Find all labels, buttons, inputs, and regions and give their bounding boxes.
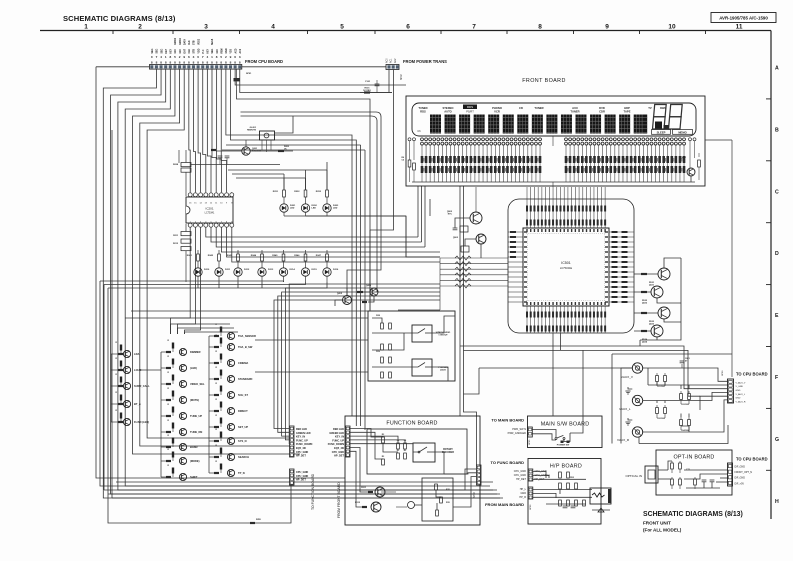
svg-text:7: 7 xyxy=(472,24,476,31)
svg-text:IC501: IC501 xyxy=(561,261,571,265)
svg-text:GRID2: GRID2 xyxy=(175,37,177,45)
H/P BOARD outline xyxy=(528,459,601,525)
svg-text:TAPE: TAPE xyxy=(624,109,631,113)
svg-text:R245: R245 xyxy=(272,254,278,257)
svg-text:Q532: Q532 xyxy=(642,303,648,305)
svg-text:11: 11 xyxy=(736,24,743,31)
svg-text:STB: STB xyxy=(194,49,196,54)
svg-text:8: 8 xyxy=(169,55,171,59)
svg-text:KEY_IN: KEY_IN xyxy=(335,436,344,439)
svg-text:FUNC_UP: FUNC_UP xyxy=(332,439,344,442)
svg-text:V_AUX_V: V_AUX_V xyxy=(736,381,746,384)
svg-text:8: 8 xyxy=(211,61,213,65)
display 7-segment digits 88 xyxy=(653,105,683,130)
svg-text:R3: R3 xyxy=(404,450,406,452)
svg-text:STEREO: STEREO xyxy=(442,106,453,110)
model number box AVR-1905/785 A/C-1590 xyxy=(711,13,776,23)
svg-text:8: 8 xyxy=(183,61,185,65)
svg-text:Q533: Q533 xyxy=(649,324,655,326)
svg-text:REMOTE: REMOTE xyxy=(247,130,257,132)
left multi-wire bus into IC501 xyxy=(398,256,508,310)
svg-text:0: 0 xyxy=(151,55,153,59)
svg-text:DIF_GND: DIF_GND xyxy=(735,477,746,480)
display pin row and resistor arrays xyxy=(421,138,686,182)
svg-text:R244: R244 xyxy=(251,254,257,257)
svg-text:LRA: LRA xyxy=(134,352,139,356)
svg-text:TUNE_DN: TUNE_DN xyxy=(190,430,202,434)
function board inner circuit box xyxy=(367,429,467,474)
transistor array column 3 Q231-Q240 xyxy=(209,324,256,477)
svg-text:CPU_GND: CPU_GND xyxy=(514,470,526,473)
labels PWR_SW xyxy=(508,428,527,435)
svg-text:8: 8 xyxy=(197,61,199,65)
svg-text:B: B xyxy=(775,127,779,133)
svg-text:TUNER: TUNER xyxy=(534,106,543,110)
middle maze wires xyxy=(125,145,455,430)
svg-text:ACD: ACD xyxy=(234,48,237,53)
labels CN202 signals xyxy=(296,428,312,458)
svg-text:CD: CD xyxy=(519,106,523,110)
svg-text:D216: D216 xyxy=(333,269,339,271)
transistor Q206 xyxy=(357,285,378,303)
svg-text:SP05: SP05 xyxy=(529,439,531,445)
svg-text:2: 2 xyxy=(225,55,227,59)
wire bus from CN201 to left edge xyxy=(96,67,500,498)
svg-text:1K REQ: 1K REQ xyxy=(363,90,371,92)
svg-text:H: H xyxy=(775,499,779,505)
power switch S401 xyxy=(532,430,570,447)
svg-text:8: 8 xyxy=(179,61,181,65)
svg-text:8: 8 xyxy=(165,61,167,65)
svg-text:D211: D211 xyxy=(225,269,231,271)
svg-text:P-C: P-C xyxy=(203,49,205,53)
IC501 right pins with resistor arrays xyxy=(605,231,634,303)
svg-text:8: 8 xyxy=(169,61,171,65)
svg-text:R232: R232 xyxy=(294,191,300,193)
svg-text:SEG: SEG xyxy=(212,48,214,53)
svg-text:MAIN S/W BOARD: MAIN S/W BOARD xyxy=(541,422,590,428)
svg-text:5: 5 xyxy=(340,24,344,31)
transistor array column 2 Q221-Q229 xyxy=(161,340,205,481)
svg-text:PWR_SW N: PWR_SW N xyxy=(512,428,526,431)
resistor R201 near CN201 xyxy=(234,69,253,90)
grid row letters A-H xyxy=(775,66,779,505)
svg-text:8: 8 xyxy=(538,24,542,31)
svg-text:SCHEMATIC DIAGRAMS (8/13): SCHEMATIC DIAGRAMS (8/13) xyxy=(643,511,743,518)
wire loop around front board left xyxy=(241,112,382,296)
svg-text:R208: R208 xyxy=(173,164,179,166)
transistor Q502 above IC501 xyxy=(447,187,482,232)
svg-text:(LED): (LED) xyxy=(190,366,197,370)
IC501 shield outline rounded xyxy=(508,199,634,333)
jack J601 VAUX_V xyxy=(621,363,728,444)
svg-text:5: 5 xyxy=(220,55,222,59)
svg-text:RED LED: RED LED xyxy=(333,428,344,431)
wire CN201 pins to right busses xyxy=(226,67,477,465)
svg-text:VAUX_R: VAUX_R xyxy=(617,438,630,442)
svg-text:TOA_B_SW: TOA_B_SW xyxy=(238,345,253,349)
svg-text:AUTO: AUTO xyxy=(444,109,452,113)
right border line xyxy=(770,31,772,520)
svg-text:DIRECT: DIRECT xyxy=(238,409,248,413)
svg-text:RDS: RDS xyxy=(420,109,426,113)
connector CN501 hp board upper xyxy=(528,469,547,481)
svg-text:R312: R312 xyxy=(355,502,361,504)
wires CN202 up to middle bus xyxy=(274,284,440,444)
LEDs D204-D210 row 2 xyxy=(187,250,339,282)
wires from power trans connector xyxy=(237,70,394,312)
svg-text:PWR_GND/LED: PWR_GND/LED xyxy=(508,432,527,435)
svg-text:GREEN LED: GREEN LED xyxy=(296,432,311,435)
svg-text:FROM FRONT BOARD: FROM FRONT BOARD xyxy=(337,482,341,518)
svg-text:VIDEO/AUDIO: VIDEO/AUDIO xyxy=(436,331,451,334)
connector CN502 hp board lower xyxy=(528,487,533,510)
svg-text:CPU_GND: CPU_GND xyxy=(296,471,308,474)
svg-text:DVD: DVD xyxy=(599,106,605,110)
wires VAUX grounds xyxy=(648,368,728,432)
svg-text:V_AUX_R: V_AUX_R xyxy=(736,401,746,404)
svg-text:GND: GND xyxy=(736,390,741,392)
svg-text:CPU_GND: CPU_GND xyxy=(296,451,308,454)
connector CN203 xyxy=(290,469,309,485)
svg-text:H/P BOARD: H/P BOARD xyxy=(550,464,582,470)
svg-text:CPU_GND: CPU_GND xyxy=(514,474,526,477)
wire display to IC501 xyxy=(552,136,554,187)
svg-text:CPU_GND: CPU_GND xyxy=(296,475,308,478)
svg-text:C63 R63: C63 R63 xyxy=(681,404,690,406)
svg-text:C61 R61: C61 R61 xyxy=(657,386,666,388)
transistor Q301 xyxy=(361,487,385,497)
transistor Q503 xyxy=(453,234,486,258)
resistor network R208 above IC201 xyxy=(173,150,280,196)
svg-text:2: 2 xyxy=(138,24,142,31)
svg-text:GRI: GRI xyxy=(180,49,182,53)
svg-text:R246: R246 xyxy=(294,254,300,257)
wires function board to CN302 xyxy=(444,469,477,507)
svg-text:V_GND: V_GND xyxy=(736,386,744,388)
svg-text:KTC: KTC xyxy=(448,214,453,216)
svg-text:SEG8: SEG8 xyxy=(212,38,214,45)
svg-text:VDD2: VDD2 xyxy=(198,38,200,45)
svg-text:R233: R233 xyxy=(316,191,322,193)
svg-text:DIMMER: DIMMER xyxy=(190,350,201,354)
svg-text:GRI: GRI xyxy=(217,49,219,53)
svg-text:SEARCH: SEARCH xyxy=(238,455,249,459)
svg-text:3: 3 xyxy=(239,55,241,59)
svg-text:SP04: SP04 xyxy=(473,491,476,498)
MAIN S/W BOARD outline xyxy=(528,416,603,448)
connector CN201 strip xyxy=(150,65,242,70)
sub box power sw on function board xyxy=(414,478,453,521)
capacitors opt-in board xyxy=(668,461,728,489)
svg-text:(For ALL MODEL): (For ALL MODEL) xyxy=(643,528,682,533)
svg-text:(MUTE): (MUTE) xyxy=(190,398,199,402)
svg-text:DAT: DAT xyxy=(183,48,186,53)
svg-text:F: F xyxy=(775,375,778,381)
svg-text:(MODE): (MODE) xyxy=(190,459,200,463)
svg-text:C: C xyxy=(775,189,779,195)
svg-text:DIF_GND: DIF_GND xyxy=(735,466,746,469)
svg-text:10: 10 xyxy=(668,24,676,31)
svg-text:5: 5 xyxy=(174,55,176,59)
svg-text:Q534: Q534 xyxy=(642,341,648,344)
display dot matrix segments xyxy=(430,115,647,134)
svg-text:TO CPU BOARD: TO CPU BOARD xyxy=(736,372,768,377)
svg-text:SURR_CALL: SURR_CALL xyxy=(134,384,150,388)
connector CN601 TO CPU BOARD xyxy=(722,370,768,404)
svg-text:9: 9 xyxy=(605,24,609,31)
svg-text:5CH_ST: 5CH_ST xyxy=(238,393,248,397)
svg-text:8: 8 xyxy=(151,61,153,65)
svg-text:HP_DET: HP_DET xyxy=(296,479,306,482)
display module FL601 outline xyxy=(412,103,696,136)
svg-text:RED LED: RED LED xyxy=(296,428,307,431)
display small boxed labels xyxy=(652,122,693,135)
svg-text:PHONO: PHONO xyxy=(492,106,502,110)
wires LED row2 to bus xyxy=(100,281,327,288)
svg-text:8: 8 xyxy=(220,61,222,65)
resistors function board xyxy=(382,434,407,465)
svg-text:EQ5_43I: EQ5_43I xyxy=(296,447,306,450)
transistor array column 1 Q211-Q215 xyxy=(96,342,150,478)
svg-text:8: 8 xyxy=(193,61,195,65)
svg-text:8: 8 xyxy=(160,61,162,65)
wires function board inner xyxy=(350,429,444,508)
svg-text:VIDEO_SEL: VIDEO_SEL xyxy=(190,382,205,386)
svg-text:TO MAIN BOARD: TO MAIN BOARD xyxy=(491,418,524,423)
svg-text:LC75341E: LC75341E xyxy=(560,266,573,270)
display end pins xyxy=(401,138,696,182)
svg-text:Q206: Q206 xyxy=(366,285,372,287)
svg-text:D214: D214 xyxy=(290,268,296,271)
capacitor C601 on VAUX_V line xyxy=(680,358,691,368)
grid row tick marks xyxy=(766,99,771,470)
svg-text:SP02: SP02 xyxy=(401,74,403,80)
svg-text:R247: R247 xyxy=(316,254,322,257)
svg-text:GRI: GRI xyxy=(175,49,177,53)
svg-text:8: 8 xyxy=(216,61,218,65)
svg-text:VCR: VCR xyxy=(494,109,500,113)
IC501 QFP body xyxy=(523,228,609,306)
svg-text:8: 8 xyxy=(202,61,204,65)
svg-text:RDS: RDS xyxy=(467,105,473,109)
svg-text:EQ5_43I: EQ5_43I xyxy=(334,447,344,450)
svg-text:GRID4: GRID4 xyxy=(179,37,182,45)
svg-text:D213: D213 xyxy=(268,269,274,271)
svg-text:1: 1 xyxy=(211,55,213,59)
svg-text:STANDARD: STANDARD xyxy=(238,377,252,381)
connector CN301 on function board xyxy=(328,426,350,458)
wire bottom bus horizontals xyxy=(100,130,503,524)
svg-text:R212: R212 xyxy=(173,243,179,245)
svg-text:A: A xyxy=(775,66,779,72)
headphone jack J501 xyxy=(590,488,611,512)
svg-text:KEY: KEY xyxy=(171,48,173,53)
svg-text:C62 R62: C62 R62 xyxy=(657,418,666,420)
encoder S302 xyxy=(381,492,415,509)
svg-text:FROM POWER TRANS: FROM POWER TRANS xyxy=(403,59,447,64)
svg-text:VAUX_V: VAUX_V xyxy=(621,375,634,379)
svg-text:LED: LED xyxy=(312,208,317,210)
connector CN401 main sw board xyxy=(528,427,533,445)
svg-text:SEG: SEG xyxy=(157,48,159,53)
connector CN202 TO FUNCTION BOARD xyxy=(290,426,295,457)
transistor Q302 xyxy=(355,502,381,512)
remote sensor SW201 xyxy=(247,116,293,152)
jack J603 VAUX_R xyxy=(617,400,728,444)
svg-text:2: 2 xyxy=(179,55,181,59)
svg-text:FRONT UNIT: FRONT UNIT xyxy=(643,521,671,526)
wires below IC501 to boards xyxy=(553,346,583,433)
svg-text:LC75341: LC75341 xyxy=(205,212,215,215)
svg-text:AC1: AC1 xyxy=(390,58,393,63)
svg-text:9: 9 xyxy=(230,55,232,59)
svg-text:1 IN/OUT: 1 IN/OUT xyxy=(438,335,448,337)
wires below IC501 xyxy=(460,333,728,396)
svg-text:AC2: AC2 xyxy=(394,58,397,63)
svg-text:TO CPU BOARD: TO CPU BOARD xyxy=(736,457,768,462)
IC501 left pins xyxy=(508,231,527,303)
svg-text:FUNC_UP: FUNC_UP xyxy=(296,439,308,442)
svg-text:7: 7 xyxy=(202,55,204,59)
svg-text:8: 8 xyxy=(206,61,208,65)
svg-text:4: 4 xyxy=(206,55,208,59)
jack switch box S201 S202 xyxy=(368,311,455,381)
svg-text:CPU_GND: CPU_GND xyxy=(332,451,344,454)
wires front board to LED matrix xyxy=(417,186,419,237)
svg-text:Q503: Q503 xyxy=(453,237,459,239)
svg-text:KEY: KEY xyxy=(208,48,210,53)
svg-text:GND: GND xyxy=(736,398,741,400)
svg-text:8: 8 xyxy=(156,61,158,65)
svg-text:SP01: SP01 xyxy=(246,73,252,75)
svg-text:HP_L: HP_L xyxy=(520,488,527,491)
svg-text:HP_DET: HP_DET xyxy=(516,478,526,481)
svg-text:FUNC_DOWN: FUNC_DOWN xyxy=(296,443,312,446)
svg-text:6: 6 xyxy=(406,24,410,31)
svg-text:KEY_IN: KEY_IN xyxy=(296,436,305,439)
svg-text:FROM MAIN BOARD: FROM MAIN BOARD xyxy=(485,502,524,507)
svg-text:R211: R211 xyxy=(173,235,179,237)
resistor R205 xyxy=(250,146,293,152)
svg-text:7: 7 xyxy=(156,55,158,59)
svg-text:8: 8 xyxy=(234,61,236,65)
FRONT BOARD box outline xyxy=(406,96,705,186)
svg-text:R3: R3 xyxy=(382,456,384,458)
svg-text:3: 3 xyxy=(204,24,208,31)
svg-text:DATA: DATA xyxy=(183,39,186,45)
svg-text:HDP: HDP xyxy=(624,106,630,110)
svg-text:PS/RT: PS/RT xyxy=(466,110,474,114)
hp board resistor network xyxy=(533,472,592,508)
svg-text:VAUX_L: VAUX_L xyxy=(619,407,631,411)
svg-text:TV: TV xyxy=(648,106,652,110)
svg-text:TUNE_UP: TUNE_UP xyxy=(190,414,202,418)
svg-text:SLEEP: SLEEP xyxy=(657,130,666,134)
svg-text:CDR: CDR xyxy=(599,109,605,113)
svg-text:LED: LED xyxy=(333,208,338,210)
svg-text:AC0: AC0 xyxy=(386,58,389,63)
resistor R211 R212 below IC201 xyxy=(173,224,191,282)
display mode labels xyxy=(417,105,666,134)
svg-text:D210: D210 xyxy=(204,269,210,271)
svg-text:SP06: SP06 xyxy=(530,504,532,510)
svg-text:SEG: SEG xyxy=(152,48,154,53)
svg-text:Q205: Q205 xyxy=(337,293,343,295)
svg-text:SHIFT: SHIFT xyxy=(190,475,198,479)
svg-text:8: 8 xyxy=(230,61,232,65)
svg-text:MEMO: MEMO xyxy=(678,130,686,134)
svg-text:HP_R: HP_R xyxy=(519,496,526,499)
grid column tick marks xyxy=(113,31,706,34)
svg-text:HP_DET: HP_DET xyxy=(296,455,306,458)
svg-text:V_AUX_L: V_AUX_L xyxy=(736,393,746,396)
svg-text:Q601: Q601 xyxy=(681,157,687,159)
svg-text:VD3: VD3 xyxy=(231,48,233,53)
wire bus CN201 to IC201 xyxy=(189,69,227,192)
svg-text:FROM CPU BOARD: FROM CPU BOARD xyxy=(245,59,283,64)
svg-text:SYS_N: SYS_N xyxy=(238,439,247,443)
svg-text:R231: R231 xyxy=(273,191,279,193)
svg-text:BT_A: BT_A xyxy=(134,402,141,406)
svg-text:GND: GND xyxy=(226,48,228,53)
wire long verticals mid page xyxy=(459,186,461,416)
optical connector J701 OPTICAL IN xyxy=(625,466,668,483)
svg-text:4: 4 xyxy=(271,24,275,31)
svg-text:8: 8 xyxy=(188,61,190,65)
svg-text:GND: GND xyxy=(520,492,526,495)
connector CN701 TO CPU BOARD opt xyxy=(728,457,768,487)
svg-text:TP_N: TP_N xyxy=(238,471,245,475)
svg-text:LED: LED xyxy=(290,208,295,210)
svg-text:6: 6 xyxy=(234,55,236,59)
svg-text:SEG: SEG xyxy=(161,48,163,53)
svg-text:CLK: CLK xyxy=(189,48,191,53)
svg-text:FRONT BOARD: FRONT BOARD xyxy=(522,78,566,84)
svg-text:Ch: Ch xyxy=(417,129,421,133)
LEDs D201-D203 row 1 xyxy=(273,162,339,216)
svg-text:SCHEMATIC DIAGRAMS (8/13): SCHEMATIC DIAGRAMS (8/13) xyxy=(63,14,176,23)
svg-text:IC201: IC201 xyxy=(205,207,213,211)
front board bus line xyxy=(412,181,695,183)
enclosure box around Q504-Q507 xyxy=(640,258,681,346)
svg-text:AC2: AC2 xyxy=(239,48,242,53)
labels H/P signals left xyxy=(485,470,526,507)
svg-text:R243: R243 xyxy=(227,254,233,257)
transistor Q601 right of display xyxy=(681,141,700,182)
svg-text:TO FUNC BOARD: TO FUNC BOARD xyxy=(491,460,525,465)
svg-text:FUNC_DOWN: FUNC_DOWN xyxy=(328,443,344,446)
svg-text:AUX: AUX xyxy=(572,106,578,110)
transistor Q201 near IC201 xyxy=(211,140,262,165)
svg-text:HP_DET: HP_DET xyxy=(334,455,344,458)
svg-text:R311: R311 xyxy=(361,487,367,489)
OPT-IN BOARD outline xyxy=(656,450,732,495)
svg-text:TUNED: TUNED xyxy=(418,106,427,110)
IC201 driver IC xyxy=(186,192,234,227)
svg-text:9: 9 xyxy=(183,55,185,59)
transistors Q504-Q507 right of IC501 xyxy=(634,258,681,344)
grid column numbers 1-11 xyxy=(84,24,743,31)
svg-text:STB: STB xyxy=(194,40,196,45)
long vertical wire right side xyxy=(612,140,732,444)
svg-text:4: 4 xyxy=(160,55,162,59)
svg-text:D212: D212 xyxy=(244,269,250,271)
connector CN101 FROM POWER TRANS xyxy=(386,58,448,80)
svg-text:8: 8 xyxy=(216,55,218,59)
svg-text:R242: R242 xyxy=(208,254,214,257)
jack J602 VAUX_L xyxy=(619,387,728,411)
